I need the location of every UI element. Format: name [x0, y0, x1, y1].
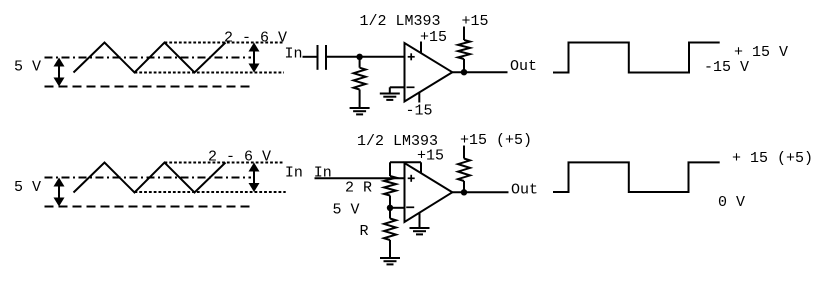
junction node A (cap/resistor): [356, 54, 362, 60]
svg-text:+ 15 (+5): + 15 (+5): [732, 150, 813, 167]
arrow 2-6V swing (bottom): [253, 167, 255, 189]
pin + (U2 non-inverting): [408, 175, 415, 182]
wire In to + input of U2: [315, 177, 405, 179]
svg-text:R: R: [360, 223, 369, 240]
svg-text:+15 (+5): +15 (+5): [460, 132, 532, 149]
wire 2R top to +15 rail: [390, 162, 421, 176]
junction node Out (bottom): [461, 189, 467, 195]
node lower dotted level 2V (top): [135, 72, 285, 74]
op-amp U2 triangle (bottom comparator): [405, 163, 453, 222]
wire 2R bottom to node 5V: [389, 196, 391, 208]
arrow 2-6V swing (top): [253, 47, 255, 69]
svg-text:Out: Out: [511, 181, 538, 198]
ground (below R1): [350, 108, 370, 114]
svg-text:5 V: 5 V: [14, 59, 41, 76]
resistor R4 value R (divider lower): [384, 208, 396, 258]
capacitor C1: [318, 45, 327, 70]
svg-text:In: In: [285, 165, 303, 182]
power -15 stub (U1 V-): [418, 93, 420, 103]
svg-text:0 V: 0 V: [718, 194, 745, 211]
node upper dotted level 6V (bottom): [165, 162, 284, 164]
wire U1 output: [452, 71, 507, 73]
ground (U1 inverting input): [380, 94, 400, 100]
svg-text:5 V: 5 V: [333, 202, 360, 219]
wire node 5V to - input of U2: [390, 207, 405, 209]
resistor R3 value 2R (divider upper): [384, 176, 396, 196]
svg-text:+15: +15: [420, 29, 447, 46]
pin - (U1 inverting): [407, 86, 415, 88]
wire triangle input waveform (top): [74, 43, 226, 73]
wire triangle input waveform (bottom): [74, 163, 226, 193]
svg-text:1/2 LM393: 1/2 LM393: [360, 13, 441, 30]
power +15 stub (U1 V+): [420, 42, 422, 54]
wire In to capacitor C1: [303, 56, 318, 58]
pin + (U1 non-inverting): [408, 53, 415, 60]
arrow 5V amplitude (bottom): [58, 182, 60, 203]
svg-text:2 - 6 V: 2 - 6 V: [224, 30, 287, 47]
svg-text:+15: +15: [462, 13, 489, 30]
resistor R5 (pull-up, bottom): [458, 146, 470, 193]
svg-text:2 R: 2 R: [345, 180, 372, 197]
wire U2 output: [452, 191, 508, 193]
resistor R1 (input bias to ground): [354, 57, 366, 108]
power ground stub (U2 V-): [419, 213, 421, 228]
node zero dashed line (top waveform 0V level): [45, 86, 252, 88]
resistor R2 (pull-up, top): [458, 27, 470, 73]
node centerline dash-dot (bottom waveform 5V level): [45, 177, 252, 179]
op-amp U1 triangle (top comparator): [405, 43, 453, 102]
pin - (U2 inverting): [406, 206, 414, 208]
svg-text:-15 V: -15 V: [704, 59, 749, 76]
junction node Out (top): [461, 69, 467, 75]
svg-text:-15: -15: [406, 103, 433, 120]
svg-text:5 V: 5 V: [14, 179, 41, 196]
arrow 5V amplitude (top): [58, 62, 60, 83]
wire square wave output (bottom): [553, 162, 720, 192]
node centerline dash-dot (top waveform 5V level): [45, 57, 252, 59]
wire square wave output (top): [553, 43, 720, 73]
junction node 5V (divider midpoint): [387, 205, 393, 211]
wire - input to ground: [390, 87, 405, 93]
wire C1 to + input of U1: [326, 56, 405, 58]
node zero dashed line (bottom waveform 0V level): [45, 206, 252, 208]
svg-text:2 - 6 V: 2 - 6 V: [208, 149, 271, 166]
node upper dotted level 6V (top): [165, 42, 285, 44]
ground (below R4): [380, 258, 400, 264]
svg-text:In: In: [285, 46, 303, 63]
node lower dotted level 2V (bottom): [135, 191, 286, 193]
svg-text:Out: Out: [510, 58, 537, 75]
svg-text:+15: +15: [417, 148, 444, 165]
ground (U2 V- pin): [410, 228, 430, 234]
